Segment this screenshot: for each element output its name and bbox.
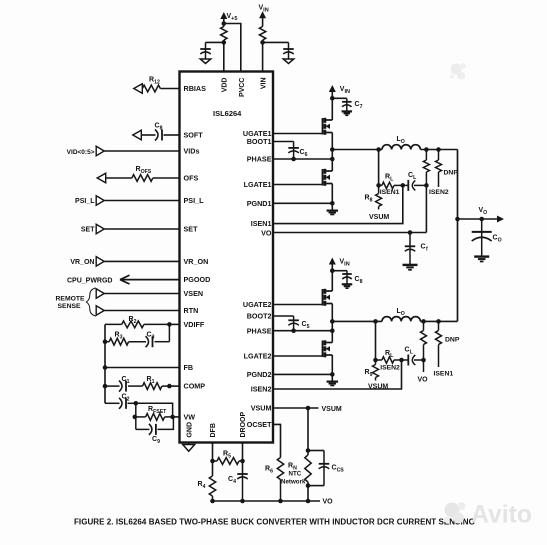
- svg-text:Avito: Avito: [471, 502, 532, 529]
- wire sense tap down phase1: [378, 150, 380, 186]
- wire ISEN1 pin to sense: [273, 185, 403, 223]
- pin label GND: [186, 422, 193, 438]
- node VSEN input: [96, 289, 179, 299]
- junction COMP node: [167, 384, 172, 389]
- pin label VO (right #7): [261, 229, 272, 238]
- capacitor C1: [105, 376, 130, 392]
- wire output rail: [457, 150, 459, 322]
- svg-text:PGND1: PGND1: [247, 199, 272, 208]
- figure caption: [74, 518, 475, 527]
- junction CO tap: [479, 217, 484, 222]
- wire resistor to VDD node: [223, 24, 225, 43]
- resistor RFSET: [135, 406, 173, 420]
- svg-text:PSI_L: PSI_L: [184, 196, 205, 205]
- wire C2 node to VW wire: [136, 403, 173, 417]
- wire UGATE2: [273, 304, 323, 306]
- capacitor C6: [288, 148, 307, 158]
- pin label COMP: [184, 382, 206, 391]
- junction C1 row left: [103, 384, 108, 389]
- junction RN rail: [306, 499, 311, 504]
- pin label VW: [184, 413, 196, 422]
- junction VW node: [170, 415, 175, 420]
- pin label SET: [184, 225, 199, 234]
- pin label VIDs: [184, 147, 200, 156]
- junction inductor2 out: [421, 319, 426, 324]
- pin label VSEN: [184, 289, 204, 298]
- wire DROOP line: [242, 443, 244, 475]
- ground Cf: [403, 265, 418, 270]
- junction RL-CL phase2: [399, 358, 404, 363]
- svg-text:NTC: NTC: [289, 471, 302, 478]
- wire sense tap down phase2: [375, 321, 377, 360]
- junction C4 rail: [240, 499, 245, 504]
- node RTN input: [96, 306, 179, 316]
- wire PGND1 pin: [273, 202, 332, 204]
- wire FB pin: [105, 367, 180, 369]
- resistor R3: [105, 331, 129, 345]
- wire PHASE2 pin: [273, 330, 332, 332]
- svg-text:f: f: [426, 247, 428, 253]
- resistor R5: [213, 451, 243, 465]
- label ISEN1 net phase2: [434, 371, 454, 378]
- junction phase2 node: [330, 328, 335, 333]
- label VSUM net phase2: [368, 384, 388, 391]
- junction DNP2 top: [436, 319, 441, 324]
- transistor Q3 high-side: [323, 289, 333, 306]
- wire CCS top: [308, 450, 324, 452]
- svg-text:PGND2: PGND2: [247, 370, 272, 379]
- faint avito watermark tile upper right: [450, 63, 466, 80]
- pin label VIN (top): [260, 78, 267, 90]
- capacitor CO: [472, 219, 502, 257]
- svg-text:ISL6264: ISL6264: [213, 109, 242, 118]
- pin label RBIAS: [184, 84, 207, 93]
- svg-text:VR_ON: VR_ON: [184, 257, 209, 266]
- pin label VSUM (right #14): [251, 404, 272, 413]
- node VID<0:5> input: [67, 146, 180, 156]
- svg-text:VDD: VDD: [222, 78, 229, 93]
- junction PGND1: [330, 201, 335, 206]
- pin label SOFT: [184, 131, 204, 140]
- svg-text:PSI_L: PSI_L: [75, 198, 95, 205]
- wire ISEN2 pin to sense: [273, 360, 402, 389]
- resistor R2: [105, 316, 169, 328]
- svg-text:C: C: [421, 244, 426, 251]
- op-amp U1 ISL6264 IC body: [180, 72, 274, 443]
- label VSUM net phase1: [369, 214, 389, 221]
- wire VIN to Q1 drain: [331, 98, 333, 120]
- wire VO output arrow: [458, 207, 505, 222]
- junction CL right phase2: [421, 358, 426, 363]
- junction phase1 node: [330, 157, 335, 162]
- svg-text:SOFT: SOFT: [184, 131, 204, 140]
- svg-text:VR_ON: VR_ON: [70, 259, 94, 266]
- svg-text:GND: GND: [186, 422, 193, 438]
- wire inductor2 out: [420, 320, 457, 322]
- junction phase1 to inductor: [330, 147, 335, 152]
- resistor DNP phase1: [436, 150, 459, 188]
- wire CCS bottom: [308, 485, 324, 487]
- label ISEN2 net phase2: [380, 365, 400, 372]
- junction VIN node: [260, 40, 265, 45]
- wire VO pin phase1: [273, 232, 426, 234]
- resistor R12: [142, 77, 179, 92]
- avito watermark logo circles: [444, 502, 466, 524]
- svg-text:PGOOD: PGOOD: [184, 275, 211, 284]
- pin label PVCC: [239, 78, 246, 97]
- capacitor Cf: [405, 233, 428, 265]
- svg-text:RBIAS: RBIAS: [184, 84, 207, 93]
- svg-text:OFS: OFS: [184, 174, 199, 183]
- pin label LGATE2 (right #11): [244, 352, 272, 361]
- junction VDIFF node: [167, 322, 172, 327]
- resistor ROFS: [132, 166, 180, 181]
- label ISEN2 net phase1: [429, 189, 449, 196]
- pin label VDIFF: [184, 320, 205, 329]
- svg-text:FB: FB: [184, 363, 194, 372]
- transistor Q4 low-side: [323, 340, 333, 357]
- capacitor C2: [105, 394, 136, 409]
- junction VIN phase2: [330, 268, 335, 273]
- wire UGATE1: [273, 133, 323, 135]
- supply V IN arrow (top): [259, 5, 269, 27]
- svg-text:VDIFF: VDIFF: [184, 320, 205, 329]
- wire VO riser phase1: [425, 185, 427, 232]
- pin label VDD: [222, 78, 229, 93]
- wire V+5 to PVCC pin: [224, 24, 241, 72]
- svg-text:VIN: VIN: [260, 78, 267, 90]
- svg-text:UGATE2: UGATE2: [243, 300, 272, 309]
- svg-text:VO: VO: [261, 229, 272, 238]
- supply V IN arrow phase1: [329, 85, 350, 98]
- supply V IN arrow phase2: [329, 258, 350, 271]
- wire C3 row to VDIFF node: [168, 324, 170, 341]
- label ISEN1 net phase1: [380, 189, 400, 196]
- ground VDD cap: [200, 59, 211, 64]
- svg-text:ISEN2: ISEN2: [429, 189, 449, 196]
- wire BOOT2: [273, 316, 294, 331]
- pin label ISEN2 (right #13): [251, 385, 272, 394]
- pin label OCSET (right #15): [247, 420, 272, 429]
- junction inductor1 out: [424, 147, 429, 152]
- ground C8: [342, 284, 353, 288]
- resistor series vertical phase1: [423, 150, 429, 186]
- svg-text:PHASE: PHASE: [247, 326, 272, 335]
- svg-text:ISEN2: ISEN2: [380, 365, 400, 372]
- svg-text:VID<0:5>: VID<0:5>: [67, 149, 95, 156]
- junction VSUM node: [306, 406, 311, 411]
- capacitor C9: [136, 417, 174, 445]
- capacitor C4: [228, 474, 248, 502]
- junction R6 rail: [278, 499, 283, 504]
- pin label BOOT2 (right #9): [247, 312, 272, 321]
- svg-text:SENSE: SENSE: [58, 303, 82, 310]
- resistor RL phase1: [379, 174, 406, 189]
- junction sense left phase2: [373, 358, 378, 363]
- resistor series vertical phase2: [421, 321, 427, 360]
- pin label RTN: [184, 306, 199, 315]
- svg-text:PHASE: PHASE: [247, 155, 272, 164]
- pin label PHASE (right #10): [247, 326, 272, 335]
- svg-text:VSUM: VSUM: [369, 214, 389, 221]
- wire VSUM pin net: [273, 406, 342, 413]
- svg-text:VW: VW: [184, 413, 196, 422]
- svg-text:DNP: DNP: [445, 337, 460, 344]
- node VR_ON input: [70, 257, 179, 267]
- svg-text:SET: SET: [184, 225, 199, 234]
- wire PGND2 pin: [273, 373, 332, 375]
- capacitor VIN decoupling: [283, 49, 294, 54]
- junction phase2 to inductor: [330, 319, 335, 324]
- wire VO stub phase2: [418, 360, 429, 384]
- wire LGATE2: [273, 355, 323, 357]
- junction VO tap: [455, 217, 460, 222]
- transistor Q1 high-side: [323, 118, 333, 135]
- pin label FB: [184, 363, 194, 372]
- ground CO: [474, 257, 489, 262]
- svg-text:BOOT2: BOOT2: [247, 312, 272, 321]
- capacitor C3: [129, 331, 170, 347]
- wire VSUM down to RN: [307, 408, 309, 451]
- wire VIN to Q3 drain: [331, 271, 333, 291]
- junction PGND2: [330, 372, 335, 377]
- wire PHASE1 pin: [273, 158, 332, 160]
- wire Q1 source to phase node: [331, 133, 333, 172]
- pin label OFS: [184, 174, 199, 183]
- pin label UGATE2 (right #8): [243, 300, 272, 309]
- junction VIN phase1: [330, 96, 335, 101]
- pin label UGATE1 (right #1): [243, 129, 272, 138]
- svg-text:FIGURE 2. ISL6264 BASED TWO-P: FIGURE 2. ISL6264 BASED TWO-PHASE BUCK C…: [74, 518, 475, 527]
- wire to C8: [332, 271, 347, 285]
- svg-text:CPU_PWRGD: CPU_PWRGD: [67, 277, 113, 284]
- capacitor CL phase2: [405, 347, 424, 366]
- resistor R6: [265, 458, 284, 502]
- wire VO bottom rail: [213, 499, 334, 506]
- resistor RL phase2: [376, 350, 406, 363]
- junction FB node: [103, 365, 108, 370]
- svg-text:Network: Network: [281, 479, 306, 486]
- wire RN node to rail: [307, 486, 309, 501]
- wire VDIFF pin: [169, 323, 179, 325]
- resistor R1: [128, 376, 169, 390]
- junction sense left phase1: [376, 183, 381, 188]
- ground C7: [342, 111, 353, 115]
- svg-text:DFB: DFB: [210, 423, 217, 437]
- resistor VDD filter: [221, 27, 227, 41]
- ground Q2 source: [327, 211, 339, 215]
- wire phase2 to inductor: [332, 320, 382, 322]
- remote sense brace: [86, 288, 95, 316]
- svg-text:VSUM: VSUM: [251, 404, 272, 413]
- svg-text:VSUM: VSUM: [322, 406, 342, 413]
- transistor Q2 low-side: [323, 169, 333, 186]
- node PSI_L input: [75, 196, 179, 206]
- junction sense tap phase1: [376, 147, 381, 152]
- resistor VIN filter: [259, 27, 265, 41]
- wire RFSET left leg: [135, 403, 137, 429]
- pin label DROOP: [240, 412, 247, 438]
- node REMOTE SENSE label: [56, 295, 86, 310]
- ground VIN cap: [283, 59, 294, 64]
- junction V+5 node: [222, 21, 227, 26]
- junction RFSET left: [133, 415, 138, 420]
- junction CL right phase1: [424, 183, 429, 188]
- pin label PGND1 (right #5): [247, 199, 272, 208]
- ground GND pin: [183, 443, 195, 452]
- inductor LO phase2: [382, 308, 420, 321]
- svg-text:COMP: COMP: [184, 382, 206, 391]
- pin label DFB: [210, 423, 217, 437]
- resistor R4: [198, 476, 216, 501]
- pin label ISEN1 (right #6): [251, 219, 272, 228]
- svg-text:LGATE2: LGATE2: [244, 352, 272, 361]
- junction C6 phase: [291, 157, 296, 162]
- resistor R8: [365, 185, 382, 209]
- capacitor C7: [342, 101, 363, 110]
- svg-text:VO: VO: [418, 377, 429, 384]
- pin label PGOOD: [184, 275, 211, 284]
- wire left vertical feedback: [104, 324, 106, 403]
- node SET input: [81, 224, 180, 234]
- wire phase1 to inductor: [332, 149, 382, 151]
- wire Q4 source to PGND2: [331, 355, 333, 382]
- svg-text:REMOTE: REMOTE: [56, 295, 86, 302]
- wire VW pin: [173, 416, 180, 418]
- open arrow OFS: [97, 173, 132, 183]
- junction R4 rail: [210, 499, 215, 504]
- wire VDD node to VDD pin: [223, 42, 225, 71]
- svg-text:OCSET: OCSET: [247, 420, 272, 429]
- wire DFB line: [212, 443, 214, 477]
- junction RL-CL phase1: [401, 183, 406, 188]
- capacitor C8 soft: [155, 123, 180, 141]
- wire BOOT1: [273, 142, 294, 160]
- junction DNP1 top: [436, 147, 441, 152]
- wire to C7: [332, 98, 347, 111]
- junction R3 row left: [103, 339, 108, 344]
- wire COMP pin: [169, 385, 179, 387]
- junction Cf tap: [408, 230, 413, 235]
- svg-text:RTN: RTN: [184, 306, 199, 315]
- capacitor C8 phase2: [342, 274, 362, 285]
- wire inductor1 out: [420, 149, 457, 151]
- junction DFB/R5: [210, 459, 215, 464]
- wire Q2 source to PGND1: [331, 184, 333, 211]
- capacitor VDD decoupling: [200, 49, 211, 54]
- svg-text:ISEN1: ISEN1: [434, 371, 454, 378]
- open arrow SOFT: [133, 130, 156, 140]
- svg-text:DNP: DNP: [444, 170, 459, 177]
- svg-text:ISEN2: ISEN2: [251, 385, 272, 394]
- resistor R9: [365, 360, 379, 381]
- wire LGATE1: [273, 184, 323, 186]
- wire Q3 source to phase node: [331, 304, 333, 343]
- svg-text:BOOT1: BOOT1: [247, 137, 272, 146]
- resistor RN NTC: [281, 451, 311, 486]
- avito watermark text: [471, 502, 532, 529]
- wire resistor to VIN node: [262, 40, 264, 42]
- junction VDD node: [222, 40, 227, 45]
- open arrow RBIAS: [134, 84, 143, 94]
- svg-text:ISEN1: ISEN1: [251, 219, 272, 228]
- pin label LGATE1 (right #4): [244, 180, 272, 189]
- junction DROOP/R5/C4: [240, 459, 245, 464]
- svg-text:VO: VO: [323, 499, 334, 506]
- node CPU_PWRGD output arrow: [67, 275, 180, 284]
- pin label BOOT1 (right #2): [247, 137, 272, 146]
- junction C5 phase: [291, 328, 296, 333]
- wire VIN node to VIN pin: [262, 42, 264, 71]
- svg-text:LGATE1: LGATE1: [244, 180, 272, 189]
- pin label PHASE (right #3): [247, 155, 272, 164]
- pin label PGND2 (right #12): [247, 370, 272, 379]
- pin label VR_ON: [184, 257, 209, 266]
- pin label PSI_L: [184, 196, 205, 205]
- wire VIN node to cap: [263, 42, 289, 59]
- svg-text:VSEN: VSEN: [184, 289, 204, 298]
- capacitor CCS: [319, 451, 345, 486]
- capacitor C5: [288, 320, 309, 330]
- wire VDD node to cap: [206, 42, 224, 59]
- svg-text:ISEN1: ISEN1: [380, 189, 400, 196]
- junction RN top node: [306, 448, 311, 453]
- ground Q4 source: [327, 382, 339, 386]
- svg-text:SET: SET: [81, 227, 95, 234]
- supply V+5 arrow: [220, 12, 237, 24]
- wire OCSET to R6: [273, 424, 281, 457]
- junction C2 right node: [134, 401, 139, 406]
- capacitor CL phase1: [405, 172, 426, 191]
- resistor DNP phase2: [436, 321, 460, 367]
- svg-text:VIDs: VIDs: [184, 147, 200, 156]
- junction sense tap phase2: [373, 319, 378, 324]
- inductor LO phase1: [382, 136, 420, 150]
- junction RN bottom node: [306, 483, 311, 488]
- svg-text:PVCC: PVCC: [239, 78, 246, 97]
